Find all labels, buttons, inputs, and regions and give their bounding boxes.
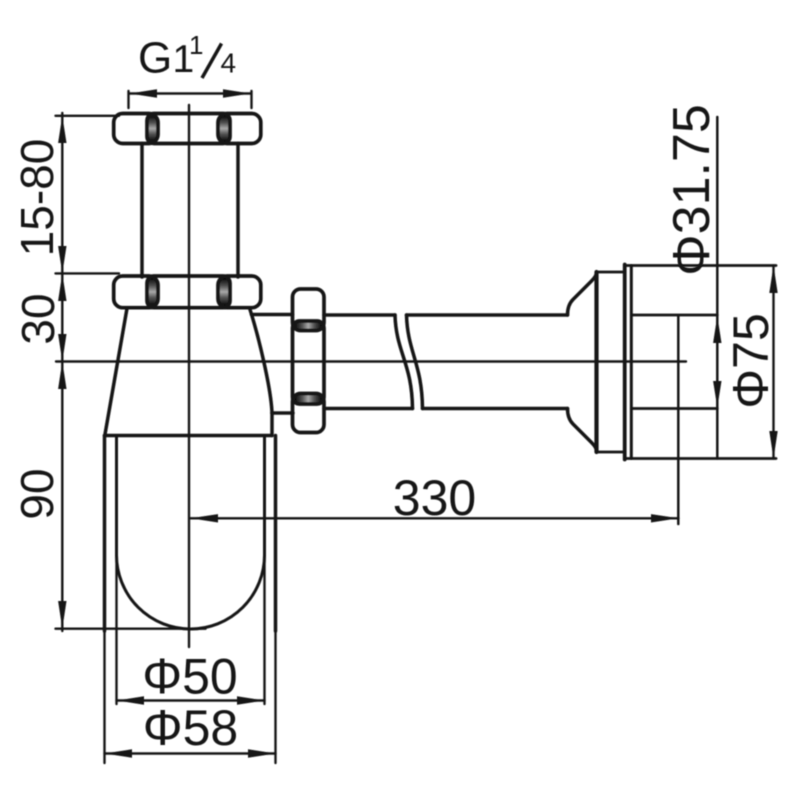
pipe end top wall inside escutcheon	[631, 314, 717, 317]
svg-text:330: 330	[393, 470, 476, 526]
wall flange bell bottom	[568, 409, 597, 452]
wall flange bell top	[568, 273, 597, 316]
thread dim extension tick left	[127, 91, 129, 108]
pipe break line 1	[395, 315, 413, 409]
side outlet nut	[293, 289, 325, 433]
svg-text:Φ75: Φ75	[723, 313, 779, 409]
pipe end edge / dia 31.75 leader line	[716, 117, 719, 459]
lower slip nut	[114, 276, 261, 308]
dia 50 extension right	[263, 556, 265, 704]
bell disc bottom edge	[597, 451, 625, 454]
dia 58 dimension line	[105, 752, 276, 754]
svg-text:90: 90	[11, 468, 63, 519]
svg-text:G: G	[138, 34, 172, 83]
dia 58 extension right	[274, 631, 276, 763]
bell disc top edge	[597, 271, 625, 274]
dia 50 dimension line	[117, 699, 265, 701]
dia 58 extension left	[103, 631, 105, 763]
escutcheon cylinder bottom edge + dim extension	[625, 457, 776, 460]
pipe break line 2	[407, 315, 423, 409]
label G 1 1/4	[138, 30, 236, 83]
thread dim arrow left	[130, 89, 158, 97]
arrow pair at 273.4	[58, 246, 66, 273]
330 dim arrow right	[651, 514, 679, 522]
dia 75 dimension line	[772, 266, 774, 459]
arrow down at 628.7	[58, 601, 66, 629]
cup outer wall left	[103, 436, 107, 632]
arrow pair at 361.5	[58, 334, 66, 362]
cup inner bottom arc	[117, 555, 265, 629]
top slip nut	[114, 114, 261, 144]
thread dim extension tick right	[250, 91, 252, 108]
thread dimension line G1-1/4	[130, 92, 251, 94]
bell disc front edge	[594, 272, 598, 452]
outlet pipe top wall	[324, 313, 568, 317]
pipe end bottom wall inside escutcheon	[631, 407, 717, 410]
outlet pipe centerline / 30-90 extension line	[56, 360, 686, 362]
extension line at cup bottom	[56, 628, 206, 630]
svg-text:Φ50: Φ50	[142, 649, 238, 705]
cup outer wall right	[274, 436, 278, 632]
svg-text:Φ58: Φ58	[143, 700, 239, 756]
svg-text:30: 30	[12, 293, 64, 344]
extension line at top nut top	[56, 115, 120, 117]
inlet tube wall left	[140, 144, 144, 278]
inlet tube wall right	[236, 144, 240, 278]
dia 50 extension left	[115, 556, 117, 704]
outlet pipe bottom wall	[324, 407, 568, 411]
extension line at lower nut top	[56, 272, 120, 274]
left dimension line	[61, 113, 63, 631]
escutcheon cylinder top edge + dim extension	[625, 264, 776, 267]
cup inner wall left	[115, 436, 118, 557]
svg-text:1: 1	[189, 30, 203, 60]
cup inner wall right	[263, 436, 266, 557]
trap body	[105, 310, 294, 436]
svg-text:4: 4	[221, 48, 237, 79]
thread dim arrow right	[223, 89, 251, 97]
330 dim extension line at flange	[677, 316, 680, 525]
svg-text:15-80: 15-80	[11, 139, 63, 257]
escutcheon cylinder lip line	[630, 266, 633, 459]
dia 31.75 dimension arrows	[713, 316, 721, 343]
330 dimension line	[191, 517, 679, 519]
arrow up at 115.8	[58, 116, 66, 143]
escutcheon cylinder front edge	[623, 265, 627, 460]
trap centerline	[188, 105, 190, 647]
330 dim arrow left	[191, 514, 219, 522]
svg-text:Φ31.75: Φ31.75	[663, 104, 721, 276]
